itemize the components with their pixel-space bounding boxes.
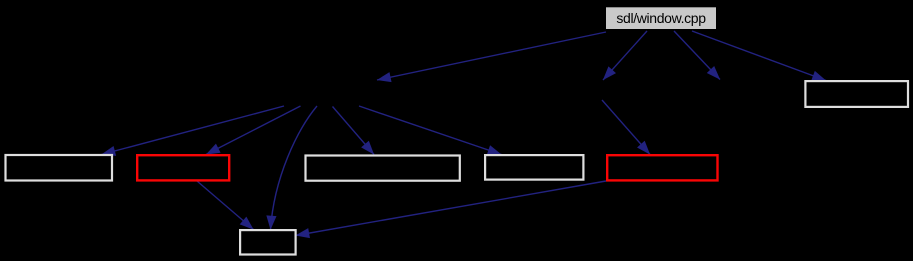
wire: edge hub -> box 1 bbox=[102, 106, 285, 155]
node red box right (highlighted) bbox=[607, 155, 717, 180]
node red box left (highlighted) bbox=[137, 155, 229, 180]
node right box (under root) bbox=[805, 81, 908, 107]
wire: edge hub -> small bottom box bbox=[271, 106, 318, 230]
node sdl/window.cpp label text bbox=[606, 7, 716, 29]
node sdl/window.cpp (root) bbox=[606, 7, 716, 29]
wire: edge hub -> box 4 bbox=[359, 106, 502, 155]
node box 4 bbox=[485, 155, 583, 180]
node small bottom box bbox=[240, 230, 296, 254]
wire: edge hidden node A -> red box right bbox=[602, 100, 650, 155]
wire: edge hub -> box 3 bbox=[333, 107, 375, 155]
wire: edge red box left -> small bottom box bbox=[197, 181, 254, 230]
wire: edge sdl/window.cpp -> hidden node A bbox=[603, 31, 647, 80]
wire: edge sdl/window.cpp -> right box node bbox=[692, 31, 826, 81]
node box 1 (bottom row far left) bbox=[6, 155, 113, 181]
wire: edge sdl/window.cpp -> hidden node B bbox=[674, 31, 720, 80]
wire: edge hub -> red box left bbox=[206, 106, 301, 155]
node box 3 bbox=[306, 156, 460, 181]
wire: edge sdl/window.cpp -> hidden hub node bbox=[377, 32, 606, 80]
wire: edge red box right -> small bottom box bbox=[296, 181, 607, 236]
